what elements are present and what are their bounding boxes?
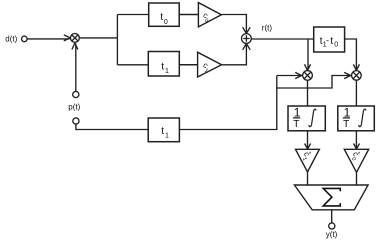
wire r(t) summer to delay t1-t0 [251, 38, 313, 40]
wire c0* to combiner [356, 172, 358, 185]
multiplier M3 [352, 71, 362, 81]
amplifier c0* [344, 149, 368, 172]
terminal p(t) upper [73, 91, 79, 97]
wire riser branch to multiplier M3 [277, 72, 351, 88]
svg-text:r(t): r(t) [262, 24, 273, 33]
svg-text:T: T [293, 119, 299, 130]
amplifier c1 [198, 52, 222, 77]
wire U2 to amplifier c0* [354, 131, 360, 149]
svg-text:0: 0 [334, 42, 338, 49]
wire c1* to combiner [307, 172, 309, 185]
amplifier c0 [198, 3, 221, 27]
svg-text:d(t): d(t) [5, 34, 17, 43]
integrator U2 [338, 105, 375, 130]
wire branch to delay t0 [117, 14, 148, 16]
svg-text:1: 1 [165, 68, 169, 75]
multiplier M2 [303, 71, 313, 81]
svg-text:t: t [161, 126, 164, 137]
wire M3 to integrator U2 [355, 80, 357, 106]
terminal p(t) lower [73, 118, 79, 124]
terminal y(t) [329, 223, 335, 229]
wire p(t) to delay t1 reference [76, 124, 148, 129]
svg-text:t: t [330, 36, 333, 47]
summer S1 [242, 34, 252, 44]
svg-text:T: T [343, 119, 349, 130]
amplifier c1* [296, 149, 320, 172]
svg-text:-: - [326, 36, 329, 46]
wire t1 reference to riser [180, 76, 277, 130]
svg-text:t: t [161, 61, 164, 72]
wire d(t) to multiplier M1 [27, 35, 70, 41]
wire p(t) to multiplier M1 [72, 43, 78, 91]
integrator U1 [288, 105, 325, 130]
delay t1 reference [148, 118, 179, 142]
wire t1-t0 to multiplier M3 [345, 39, 360, 71]
wire combiner to y(t) [331, 210, 333, 223]
wire t0 to amplifier c0 [179, 14, 198, 16]
multiplier M1 [71, 34, 80, 43]
wire c1 to summer [222, 44, 251, 65]
wire t1 to amplifier c1 [180, 64, 198, 66]
wire riser to multiplier M2 [277, 72, 302, 78]
wire branch to delay t1 [117, 64, 148, 66]
svg-text:p(t): p(t) [68, 102, 80, 111]
wire junction down to multiplier M2 [305, 39, 311, 71]
delay t0 [149, 3, 180, 26]
wire M1 output to branch node [79, 37, 117, 39]
wire M2 to integrator U1 [307, 80, 309, 106]
delay t1-t0 [314, 27, 345, 52]
wire branch vertical [116, 15, 118, 65]
svg-text:0: 0 [164, 19, 168, 26]
wire U1 to amplifier c1* [305, 131, 311, 149]
svg-text:y(t): y(t) [326, 230, 338, 239]
svg-text:1: 1 [165, 133, 169, 140]
combiner sigma [294, 185, 368, 210]
wire c0 to summer [221, 15, 250, 34]
terminal d(t) [22, 36, 28, 42]
delay t1 channel [148, 52, 179, 77]
